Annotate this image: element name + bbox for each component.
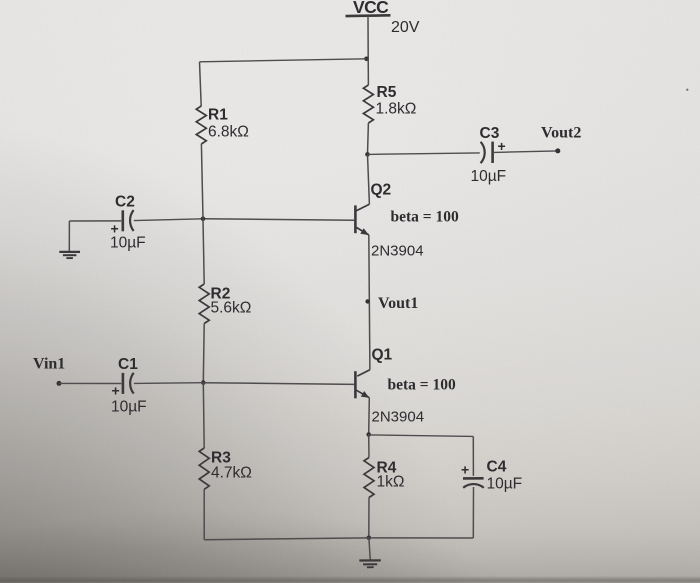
capacitor C1 (122, 373, 125, 394)
svg-text:VCC: VCC (353, 0, 389, 17)
wire ground to C2 (69, 220, 121, 222)
node R5/C3/Q2 junction (365, 152, 370, 157)
svg-text:+: + (112, 383, 120, 399)
wire C4 top lead (472, 436, 474, 476)
ground symbol left (68, 221, 70, 252)
svg-text:1.8kΩ: 1.8kΩ (376, 101, 417, 118)
svg-text:6.8kΩ: 6.8kΩ (208, 124, 249, 141)
svg-text:10µF: 10µF (471, 168, 507, 185)
node Vout2 terminal (555, 148, 560, 153)
svg-text:Q2: Q2 (371, 182, 392, 199)
svg-text:beta = 100: beta = 100 (391, 209, 459, 226)
wire R2 to C1 node (202, 324, 205, 383)
svg-text:5.6kΩ: 5.6kΩ (211, 300, 252, 317)
svg-text:R5: R5 (377, 84, 397, 101)
svg-text:10µF: 10µF (111, 399, 147, 416)
wire node to C3 (368, 153, 480, 155)
transistor Q1 (357, 370, 370, 376)
wire VCC to R5 (367, 59, 369, 85)
wire node to R4 (368, 435, 370, 458)
resistor R4 (364, 458, 374, 498)
wire left column top (200, 62, 202, 106)
node Vin1 terminal (57, 381, 62, 386)
wire bottom rail right (369, 537, 474, 539)
wire Q2 emitter to Q1 collector (369, 235, 370, 370)
svg-text:+: + (461, 462, 469, 478)
svg-text:Q1: Q1 (372, 347, 393, 364)
node Vout1 marker (365, 299, 369, 303)
wire Q2 base (203, 219, 354, 221)
wire C1 to left column (134, 382, 203, 385)
VCC power symbol (346, 14, 391, 17)
wire VCC stem (367, 16, 369, 59)
node C1 junction (201, 380, 206, 385)
resistor R5 (363, 85, 373, 123)
svg-text:20V: 20V (391, 19, 420, 36)
wire Vin1 to C1 (59, 382, 121, 384)
svg-text:Vout2: Vout2 (541, 125, 581, 142)
wire C4 bottom lead (472, 487, 474, 538)
resistor R1 (196, 106, 206, 144)
svg-text:2N3904: 2N3904 (371, 243, 424, 260)
svg-text:beta = 100: beta = 100 (388, 377, 456, 394)
transistor Q2 (356, 204, 369, 211)
svg-text:1kΩ: 1kΩ (377, 474, 405, 491)
svg-text:R1: R1 (208, 107, 228, 124)
node bottom junction (367, 536, 372, 541)
svg-text:4.7kΩ: 4.7kΩ (211, 465, 252, 482)
svg-text:10µF: 10µF (487, 476, 523, 493)
wire R5 to collector node (367, 123, 370, 154)
capacitor C2 (122, 210, 125, 231)
ground symbol bottom (369, 538, 370, 560)
wire top rail to left column (200, 59, 367, 62)
wire C2 to left column (134, 219, 203, 221)
svg-text:Vout1: Vout1 (378, 295, 418, 312)
wire Q1 base (203, 383, 354, 385)
svg-text:2N3904: 2N3904 (372, 409, 425, 426)
resistor R2 (199, 284, 209, 324)
svg-text:C1: C1 (118, 356, 138, 373)
wire collector Q2 (368, 154, 370, 204)
wire Q1 emitter down (368, 398, 371, 435)
wire C2 node to R2 (203, 219, 204, 284)
node emitter junction (366, 432, 371, 437)
wire R1 to C2 node (201, 144, 203, 219)
wire C1 node to R3 (202, 383, 205, 448)
svg-text:C4: C4 (487, 459, 507, 476)
node C2 junction (201, 216, 206, 221)
capacitor C3 (481, 142, 485, 163)
svg-text:Vin1: Vin1 (33, 356, 65, 373)
wire R4 to bottom rail (368, 498, 370, 538)
wire emitter node to C4 (369, 435, 474, 437)
wire R3 to bottom rail (203, 489, 205, 539)
svg-text:C2: C2 (115, 194, 135, 211)
wire C3 to Vout2 (494, 151, 558, 153)
wire bottom rail left (204, 538, 369, 540)
node top junction (364, 57, 369, 62)
capacitor C4 (463, 477, 484, 480)
svg-text:10µF: 10µF (110, 235, 146, 252)
resistor R3 (199, 448, 209, 489)
